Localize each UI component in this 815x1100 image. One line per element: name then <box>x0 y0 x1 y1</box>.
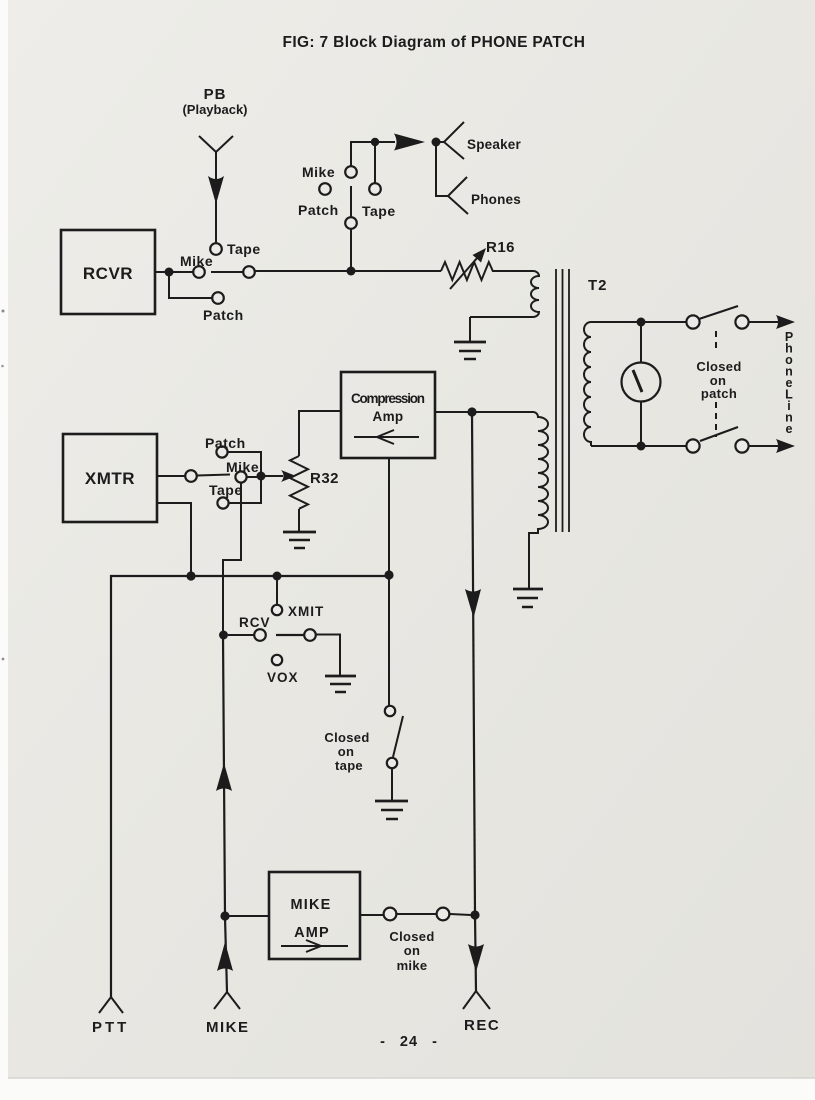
node bus XMIT junction <box>273 572 282 581</box>
svg-text:Patch: Patch <box>205 435 246 451</box>
wire meter to bottom junction <box>640 402 642 446</box>
REC jack fork <box>463 991 500 1034</box>
arrow up on mike line (lower) <box>217 942 233 971</box>
potentiometer R16 <box>441 239 515 289</box>
speaker jack fork <box>436 122 521 159</box>
svg-text:Compression: Compression <box>351 391 425 406</box>
svg-text:RCVR: RCVR <box>83 264 133 283</box>
arrow to speaker <box>394 134 425 151</box>
svg-text:tape: tape <box>335 758 363 773</box>
contact Mike (XMTR selector) <box>226 459 259 483</box>
svg-text:R32: R32 <box>310 470 339 487</box>
switch blade phone top <box>699 306 738 319</box>
contact XMIT <box>272 604 324 619</box>
wire control bus <box>111 576 389 997</box>
arrow wiper into R32 <box>261 470 296 482</box>
arrow up on mike line (upper) <box>216 763 232 791</box>
label closed on tape <box>324 730 369 773</box>
meter M1 <box>622 363 661 402</box>
wire REC junction to fork <box>475 915 476 991</box>
wire PB to Tape contact <box>215 152 217 243</box>
contact Mike (RCVR selector) <box>180 253 213 278</box>
node bus tape-switch junction <box>384 570 393 579</box>
dashed gang line <box>715 331 717 437</box>
node output junction to REC line <box>467 407 476 416</box>
switch blade XMTR selector <box>197 475 230 476</box>
svg-text:RCV: RCV <box>239 615 271 630</box>
svg-text:T2: T2 <box>588 277 608 294</box>
contact pole (RCVR selector) <box>243 266 255 278</box>
wire to REC junction <box>450 914 471 915</box>
wire RCVR output <box>155 271 193 273</box>
svg-text:Amp: Amp <box>373 409 404 424</box>
contact right of blade <box>304 629 316 641</box>
contact Patch (XMTR selector) <box>205 435 246 458</box>
label RCV <box>239 615 271 630</box>
switch blade RCV-XMIT-VOX <box>276 634 304 636</box>
node monitor tap on bus <box>347 267 356 276</box>
wire R16 to T2 primary upper <box>492 270 533 272</box>
contact phone switch top left <box>686 315 699 328</box>
contact closed-on-mike left <box>384 908 397 921</box>
PB input fork <box>199 136 233 152</box>
ground below R32 <box>283 532 316 548</box>
wire Compression Amp output <box>435 411 533 413</box>
node speaker junction <box>432 138 441 147</box>
label closed on patch <box>696 359 741 401</box>
svg-text:Patch: Patch <box>203 307 244 323</box>
wire Compression Amp bottom to bus <box>388 458 390 576</box>
contact Patch (monitor selector) <box>298 183 339 218</box>
svg-text:Tape: Tape <box>209 482 243 498</box>
svg-text:PTT: PTT <box>92 1019 129 1036</box>
svg-text:patch: patch <box>701 386 737 401</box>
phones jack fork <box>436 142 521 214</box>
label PB <box>182 86 247 117</box>
node REC junction <box>470 910 479 919</box>
wire R32 top to Compression Amp input <box>299 411 341 456</box>
contact phone switch top right <box>735 315 748 328</box>
contact pole (XMTR selector) <box>185 470 197 482</box>
arrow down to REC <box>468 944 484 972</box>
svg-text:Mike: Mike <box>226 459 259 475</box>
wire monitor top <box>351 142 395 166</box>
contact Patch (RCVR selector) <box>203 292 244 323</box>
contact VOX <box>267 655 299 685</box>
svg-text:Speaker: Speaker <box>467 137 521 152</box>
wire bus to tape switch <box>388 576 390 705</box>
wire secondary bottom <box>591 445 686 447</box>
svg-text:AMP: AMP <box>294 925 330 941</box>
MIKE jack fork <box>206 992 250 1036</box>
wire to XMIT contact <box>276 576 278 605</box>
wire and arrow phone line bottom <box>749 439 795 453</box>
contact Mike (monitor selector) <box>302 164 357 180</box>
svg-text:FIG: 7 Block Diagram of PH: FIG: 7 Block Diagram of PHONE PATCH <box>283 34 586 51</box>
svg-text:on: on <box>338 744 354 759</box>
svg-text:Closed: Closed <box>324 730 369 745</box>
wire main receive bus <box>255 270 441 272</box>
wire winding to ground <box>469 317 471 342</box>
contact phone switch bottom right <box>735 439 748 452</box>
switch blade phone bottom <box>700 427 738 441</box>
title FIG:7 Block Diagram of PHONE PATCH <box>283 34 586 51</box>
svg-text:mike: mike <box>397 958 428 973</box>
wire blade contact to ground <box>316 635 340 676</box>
block RCVR <box>61 230 155 314</box>
wire to Tape contact (monitor) <box>374 142 376 183</box>
switch blade closed on tape <box>393 716 403 757</box>
svg-text:Mike: Mike <box>302 164 335 180</box>
svg-text:XMTR: XMTR <box>85 469 135 488</box>
svg-text:REC: REC <box>464 1017 500 1034</box>
svg-text:- 24 -: - 24 - <box>380 1034 438 1050</box>
contact Tape (XMTR selector) <box>209 482 243 509</box>
contact phone switch bottom left <box>686 439 699 452</box>
PTT jack fork <box>92 997 129 1036</box>
label PhoneLine vertical <box>785 330 793 436</box>
contact closed-on-mike right <box>437 908 450 921</box>
node RCVR output junction <box>165 268 174 277</box>
svg-text:Closed: Closed <box>389 929 434 944</box>
node meter bottom junction <box>637 442 646 451</box>
page number <box>380 1034 438 1050</box>
block XMTR <box>63 434 157 522</box>
wire secondary top <box>591 321 686 323</box>
node RCV junction on mike line <box>219 631 228 640</box>
svg-text:(Playback): (Playback) <box>182 102 247 117</box>
ground for tape switch <box>375 801 408 819</box>
wire to RCV contact <box>228 634 254 636</box>
switch blade RCVR selector <box>211 271 243 273</box>
wire junction to MIKE AMP <box>225 915 269 917</box>
wire R32 bottom to ground <box>298 509 300 532</box>
contact lower pole (monitor selector) <box>345 217 357 229</box>
contact tape switch lower <box>387 758 397 768</box>
wire XMTR to bus <box>157 503 191 576</box>
wire XMTR input <box>157 475 185 477</box>
T2 primary upper winding <box>470 271 539 317</box>
wire XMTR selector connector <box>228 452 261 503</box>
block MIKE AMP <box>269 872 360 959</box>
node XMTR bus junction <box>186 571 195 580</box>
wire from RCVR junction down to Patch contact <box>169 272 212 298</box>
svg-text:MIKE: MIKE <box>290 897 331 913</box>
svg-text:Mike: Mike <box>180 253 213 269</box>
wire and arrow phone line top <box>749 315 795 329</box>
node mike amp junction <box>220 911 229 920</box>
wire between closed-on-mike contacts <box>397 913 437 915</box>
svg-text:Patch: Patch <box>298 202 339 218</box>
svg-text:on: on <box>404 943 420 958</box>
ground below R16 winding <box>454 342 486 359</box>
svg-text:XMIT: XMIT <box>288 604 324 619</box>
arrow down on PB wire <box>208 176 224 204</box>
node tape tap on monitor wire <box>371 138 379 146</box>
contact Tape (monitor selector) <box>362 183 396 219</box>
node XMTR selector junction <box>257 472 266 481</box>
wire REC vertical line <box>472 412 475 915</box>
T2 primary lower winding <box>529 412 548 588</box>
svg-text:Tape: Tape <box>227 241 261 257</box>
transformer T2 core <box>556 269 569 532</box>
svg-text:Closed: Closed <box>696 359 741 374</box>
svg-text:e: e <box>786 422 793 436</box>
contact RCV <box>254 629 266 641</box>
svg-text:Tape: Tape <box>362 203 396 219</box>
wire MIKE AMP output <box>360 914 384 916</box>
arrow down on REC line <box>465 589 481 618</box>
wire mike line to fork <box>225 917 227 992</box>
potentiometer R32 <box>290 456 339 509</box>
contact tape switch upper <box>385 706 395 716</box>
ground below lower winding <box>513 589 543 607</box>
T2 secondary winding <box>584 322 591 446</box>
svg-text:PB: PB <box>204 86 227 103</box>
block Compression Amp <box>341 372 435 458</box>
svg-text:Phones: Phones <box>471 192 521 207</box>
svg-text:R16: R16 <box>486 239 515 256</box>
wire tape switch to ground <box>391 769 393 800</box>
ground for VOX switch <box>325 676 356 692</box>
svg-text:MIKE: MIKE <box>206 1019 250 1036</box>
svg-text:VOX: VOX <box>267 670 299 685</box>
wire monitor selector vertical <box>350 186 352 271</box>
contact Tape (PB) <box>210 241 260 257</box>
wire mike line from XMTR Mike contact <box>223 483 241 917</box>
label T2 <box>588 277 608 294</box>
label closed on mike <box>389 929 434 973</box>
wire junction to meter <box>640 322 642 362</box>
node meter top junction <box>637 318 646 327</box>
